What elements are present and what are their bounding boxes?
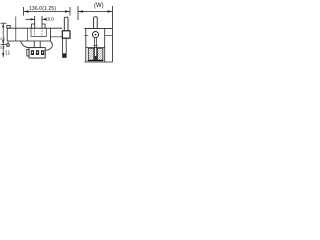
connector block [29, 48, 45, 58]
svg-text:136.0(1.25): 136.0(1.25) [29, 6, 56, 12]
lever front view [64, 17, 68, 31]
svg-text:10.0: 10.0 [45, 16, 54, 22]
dimension (W) extension bar left [77, 6, 79, 20]
terminal 3 [41, 50, 44, 55]
pivot center dot [95, 34, 97, 36]
connector neck left line [33, 41, 35, 48]
hatched cell right [97, 48, 103, 60]
side view mid line [86, 47, 105, 49]
hatched cell left [88, 48, 94, 60]
dimension 10.0 extension bar right [41, 16, 43, 24]
side view lever [94, 17, 98, 29]
stem left line [94, 38, 96, 56]
side view right edge and W extension [111, 6, 113, 62]
dimension 136.0(1.25) line with arrows [24, 10, 70, 12]
front view inner box [31, 28, 46, 36]
front view internal vertical line 2 [27, 28, 29, 41]
stem collar [93, 45, 97, 47]
front view body top edge [7, 27, 62, 29]
stem right line [96, 38, 98, 56]
dimension 10.0 left arrow [26, 18, 35, 20]
boss block [62, 31, 70, 38]
left dimension bottom down arrow [2, 53, 4, 57]
connector neck right line [39, 41, 41, 48]
dimension 136.0(1.25) extension bar right [69, 7, 71, 16]
front view right step horizontal [50, 36, 62, 38]
svg-text:2.6: 2.6 [0, 37, 5, 41]
front view internal vertical line 1 [15, 17, 17, 42]
svg-text:(W): (W) [94, 3, 104, 9]
front view body bottom edge [7, 40, 50, 42]
svg-text:3.5: 3.5 [0, 46, 5, 50]
left dimension mid tick [1, 44, 7, 46]
dimension 10.0 extension bar left [34, 16, 36, 24]
right strain relief curve [45, 41, 52, 50]
front view right step vertical [49, 28, 51, 41]
pivot circle [92, 31, 98, 37]
side view left step [84, 34, 88, 36]
block bottom heavy line [88, 60, 104, 62]
side view left edge [85, 28, 87, 62]
terminal 2 [36, 50, 39, 55]
side view bottom line [84, 61, 112, 63]
dimension 10.0 right arrow [42, 18, 46, 20]
svg-text:1.5: 1.5 [6, 52, 11, 56]
dimension (W) line with arrows [78, 10, 112, 12]
right post [42, 24, 45, 28]
left strain relief curve [21, 41, 29, 48]
dimension 136.0(1.25) extension bar left [23, 7, 25, 16]
hidden line left [34, 28, 36, 36]
left vertical dimension line [2, 23, 4, 57]
leg dark foot [63, 53, 67, 57]
side view right column [104, 28, 106, 62]
hidden line right [41, 28, 43, 36]
leg front view [63, 38, 67, 57]
pin under body left end [7, 41, 9, 47]
front view left tab [7, 25, 10, 28]
stem dark bottom [94, 56, 97, 60]
terminal 1 [31, 50, 34, 55]
front view body left edge [6, 28, 8, 41]
left dimension up arrow [2, 23, 4, 27]
side view right step [105, 34, 113, 36]
left dimension mid down arrow [2, 40, 4, 44]
left post [32, 24, 35, 28]
left dimension top tick [1, 22, 7, 24]
side view top plate [84, 27, 112, 29]
connector left tab [27, 49, 29, 56]
